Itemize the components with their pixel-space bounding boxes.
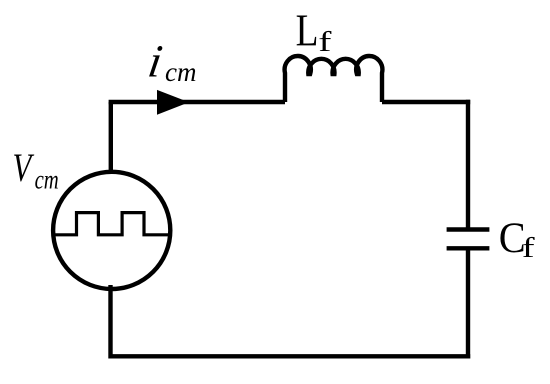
svg-text:f: f (318, 27, 332, 57)
capacitor Cf top plate (447, 227, 490, 231)
wire from Vcm top terminal up to top-left corner (109, 102, 113, 173)
wire right vertical from capacitor bottom plate to bottom-right corner (466, 248, 470, 358)
voltage source Vcm circle (53, 172, 170, 289)
wire from bottom-left corner up to Vcm bottom terminal (108, 285, 112, 359)
capacitor Cf bottom plate (447, 246, 490, 250)
inductor Lf (285, 56, 383, 102)
current direction arrow (157, 90, 189, 115)
svg-text:L: L (296, 6, 319, 56)
wire bottom horizontal (111, 354, 471, 358)
svg-text:V: V (13, 145, 35, 190)
svg-text:cm: cm (35, 166, 59, 195)
wire right vertical from corner down to capacitor top plate (466, 100, 470, 230)
wire top horizontal from corner to inductor (109, 100, 285, 104)
svg-text:i: i (145, 37, 166, 88)
svg-text:cm: cm (165, 57, 196, 87)
wire top horizontal from inductor to top-right corner (382, 100, 470, 104)
svg-text:f: f (522, 233, 536, 264)
square wave symbol inside Vcm (54, 213, 170, 235)
